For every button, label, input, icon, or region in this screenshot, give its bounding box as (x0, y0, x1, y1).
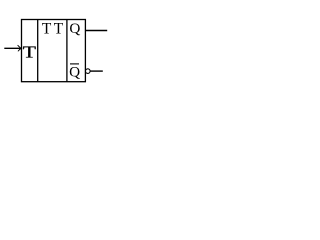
svg-text:Q: Q (69, 63, 80, 80)
overline of Qbar (70, 63, 79, 65)
wire Qbar output (90, 70, 103, 72)
bubble on Qbar output (86, 69, 91, 74)
wire T input (4, 47, 21, 49)
divider line left column (37, 20, 39, 82)
wire Q output (85, 30, 107, 32)
arrowhead T input (18, 45, 21, 51)
svg-text:T: T (23, 43, 36, 62)
flip-flop U1 body (22, 20, 86, 82)
svg-text:Q: Q (69, 20, 80, 37)
svg-text:TT: TT (42, 20, 66, 37)
divider line right column (66, 20, 68, 82)
